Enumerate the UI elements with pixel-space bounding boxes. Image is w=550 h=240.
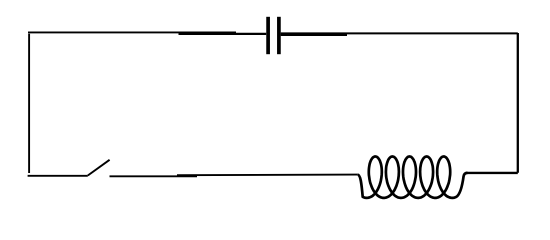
capacitor C1 right plate <box>277 17 281 54</box>
wire bottom-left (to switch pivot) <box>28 175 88 177</box>
wire top-left (thin segment from corner) <box>28 31 236 33</box>
wire top-right (to corner) <box>281 32 518 34</box>
switch S1 blade <box>88 160 110 176</box>
inductor L1 coil <box>358 157 468 198</box>
wire bottom-middle overlap (to inductor) <box>177 174 358 177</box>
capacitor C1 left plate <box>266 17 270 54</box>
wire bottom-middle (switch to overlap) <box>110 175 198 177</box>
wire left vertical <box>28 34 30 173</box>
wire bottom-right (inductor to corner) <box>466 172 518 174</box>
wire top-left overlap (thick segment) <box>179 33 267 35</box>
wire right vertical <box>517 33 519 173</box>
wire top-right thick segment <box>281 34 347 36</box>
